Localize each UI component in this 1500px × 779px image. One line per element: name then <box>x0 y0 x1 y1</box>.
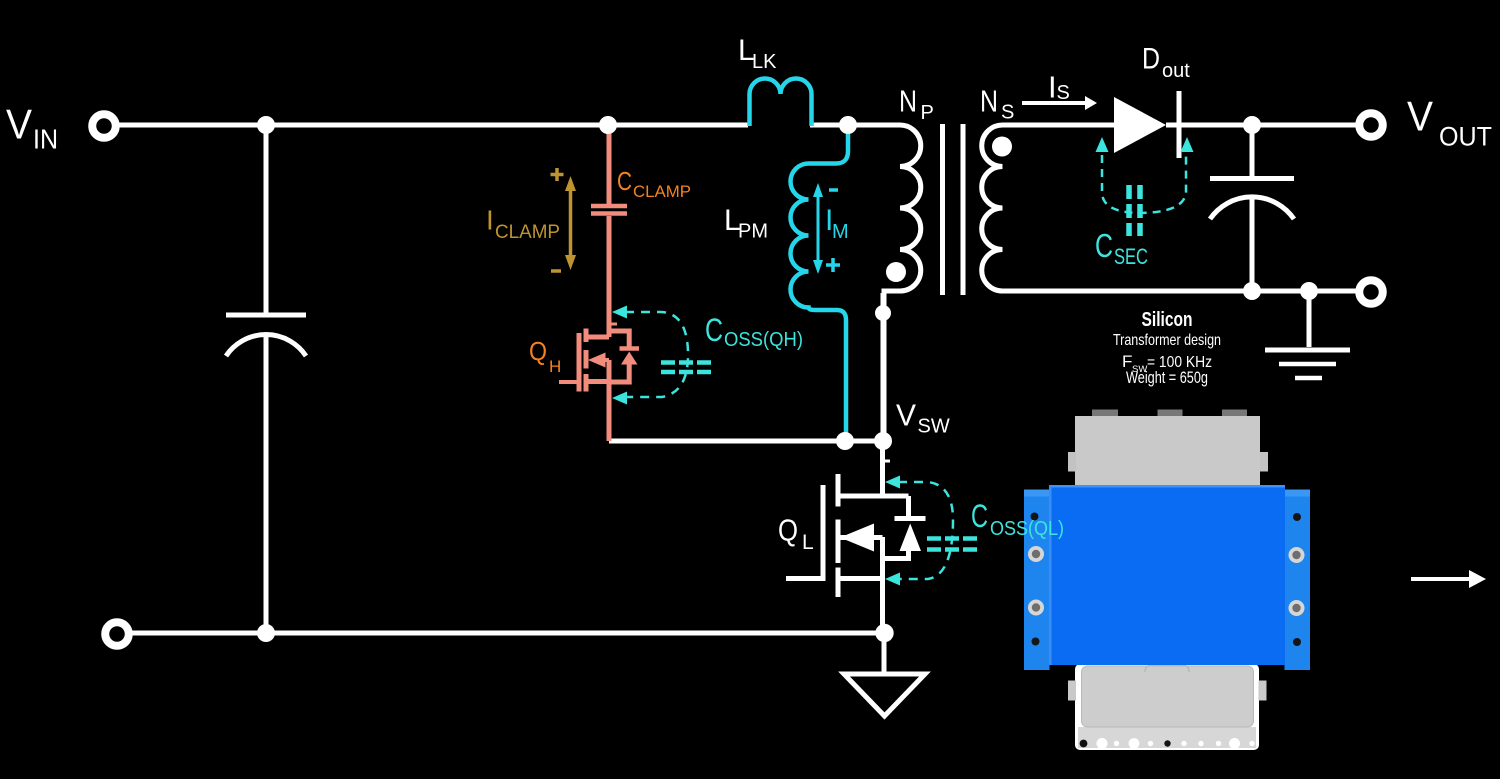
Im minus sign <box>829 188 838 192</box>
svg-text:CLAMP: CLAMP <box>495 222 560 243</box>
Coss(QL) arrow bottom <box>885 573 900 586</box>
svg-text:H: H <box>549 357 561 376</box>
svg-text:N: N <box>899 84 917 119</box>
inductor Lpm <box>791 125 849 441</box>
node junction Llk-Lpm <box>839 116 857 134</box>
svg-text:OUT: OUT <box>1439 122 1492 152</box>
label Cclamp <box>617 166 691 201</box>
svg-text:out: out <box>1162 60 1190 82</box>
svg-text:I: I <box>486 205 494 236</box>
transistor Q_H source stub <box>586 379 610 384</box>
transistor Q_L gate bar <box>821 485 826 581</box>
node junction right ground <box>1300 282 1318 300</box>
SECTION: white wires <box>112 125 1356 674</box>
label Im <box>825 204 849 243</box>
svg-text:M: M <box>832 221 849 243</box>
winding Ns secondary <box>982 125 1003 291</box>
ground right line2 <box>1279 362 1336 367</box>
capacitor Csec bar1 <box>1126 185 1132 236</box>
node junction bottom left <box>257 624 275 642</box>
Iclamp plus sign <box>551 168 564 181</box>
transistor Q_H body-source link <box>607 360 612 382</box>
svg-text:D: D <box>1142 43 1160 76</box>
Coss(QH) dashed loop <box>625 312 688 397</box>
transistor Q_H gate lead <box>559 380 579 384</box>
svg-text:Q: Q <box>529 336 547 366</box>
node junction Cclamp top <box>599 116 617 134</box>
svg-text:SEC: SEC <box>1114 244 1148 269</box>
transistor Q_H body diode branch <box>609 331 629 382</box>
Im plus sign <box>826 258 840 272</box>
svg-text:N: N <box>980 84 998 119</box>
terminal bottom left <box>105 622 129 646</box>
ground triangle <box>844 674 925 716</box>
svg-text:SW: SW <box>918 416 950 438</box>
capacitor Cin plate <box>226 313 306 318</box>
node junction Vin-Cin <box>257 116 275 134</box>
svg-text:V: V <box>896 398 916 433</box>
SECTION: junction dots and terminals <box>257 116 1318 642</box>
transistor Q_L channel segments <box>836 474 841 597</box>
transistor Q_H gate bar <box>577 333 582 392</box>
wire secondary bottom <box>1002 289 1356 294</box>
photo bracket holes right <box>1293 513 1301 521</box>
Csec dashed loop <box>1102 155 1186 213</box>
wire Cclamp to Qh drain <box>607 216 612 337</box>
wire Ql source down <box>880 537 885 631</box>
ground right line1 <box>1265 348 1350 353</box>
svg-text:C: C <box>971 498 988 534</box>
transistor Q_L body diode triangle <box>900 524 922 552</box>
photo left bracket <box>1024 490 1050 671</box>
svg-text:OSS(QL): OSS(QL) <box>990 518 1064 540</box>
capacitor Coss(QL) dashes <box>927 539 977 550</box>
svg-text:P: P <box>921 102 934 124</box>
wire Ql drain <box>880 443 885 496</box>
wire right ground stem <box>1307 291 1312 347</box>
SECTION: salmon clamp branch <box>559 128 639 441</box>
label Qh <box>529 336 561 376</box>
wire diode to Vout <box>1166 123 1356 128</box>
svg-text:I: I <box>1048 70 1057 105</box>
svg-text:F: F <box>1122 352 1132 371</box>
terminal bottom right <box>1359 280 1383 304</box>
polarity dot primary <box>886 262 906 282</box>
transformer core line 2 <box>961 124 966 295</box>
svg-text:IN: IN <box>33 124 58 155</box>
Csec arrow left <box>1096 137 1109 152</box>
wire input cap upper <box>264 125 269 313</box>
transistor Q_H channel segments <box>584 329 589 392</box>
winding Np primary <box>884 125 921 441</box>
node junction Cout bottom <box>1243 282 1261 300</box>
photo body <box>1049 485 1285 665</box>
svg-text:LK: LK <box>752 51 777 73</box>
label Iclamp <box>486 205 560 244</box>
svg-text:= 100 KHz: = 100 KHz <box>1147 354 1212 371</box>
node Vsw <box>874 432 892 450</box>
wire output cap upper <box>1250 125 1255 178</box>
svg-text:C: C <box>617 166 632 196</box>
svg-text:C: C <box>1095 227 1113 264</box>
node junction Ql source <box>875 624 893 642</box>
photo right bracket <box>1285 490 1311 671</box>
arrow Iclamp double-headed <box>565 176 576 270</box>
Csec arrow right <box>1181 137 1194 152</box>
transistor Q_H drain stub <box>586 335 609 340</box>
capacitor Cout plate <box>1210 176 1294 181</box>
Coss(QH) arrow bottom <box>612 392 627 405</box>
Coss(QL) arrow top <box>885 476 900 489</box>
svg-text:OSS(QH): OSS(QH) <box>724 329 803 351</box>
photo bracket holes left <box>1031 513 1039 521</box>
transistor Q_L drain stub <box>838 494 909 499</box>
transistor Q_H body diode cathode bar <box>620 346 640 351</box>
svg-text:PM: PM <box>738 221 768 243</box>
transformer core line 1 <box>940 124 945 295</box>
capacitor Cout curved plate <box>1210 197 1294 219</box>
label Csec <box>1095 227 1148 269</box>
wire bottom main <box>126 631 884 636</box>
wire output cap lower <box>1250 198 1255 291</box>
transistor Q_H drain tick <box>609 323 617 326</box>
node junction primary bottom <box>875 305 891 321</box>
svg-text:V: V <box>6 101 32 148</box>
wire Cclamp upper <box>607 128 612 204</box>
Ql drain tick <box>883 460 891 463</box>
capacitor Cclamp plate1 <box>591 204 627 209</box>
node junction Lpm-Vsw <box>836 432 854 450</box>
svg-text:S: S <box>1001 102 1014 124</box>
svg-text:Silicon: Silicon <box>1142 308 1193 331</box>
capacitor Cclamp plate2 <box>591 211 627 216</box>
transistor Q_H body diode triangle <box>621 352 638 365</box>
label Coss(QL) <box>971 498 1064 540</box>
svg-text:Transformer design: Transformer design <box>1113 332 1221 349</box>
svg-text:CLAMP: CLAMP <box>633 182 691 201</box>
Iclamp minus sign <box>551 269 561 273</box>
photo bottom block <box>1075 664 1259 750</box>
label Coss(QH) <box>705 312 803 351</box>
transistor Q_L gate lead <box>786 576 823 581</box>
arrow Im double-headed <box>813 183 823 274</box>
wire Q_H source down <box>607 382 612 441</box>
arrow Is <box>1022 96 1097 110</box>
transistor Q_L source stub <box>838 576 885 581</box>
wire top main <box>112 123 748 128</box>
wire ground stem <box>882 633 887 674</box>
wire top between Llk and primary <box>810 123 901 128</box>
svg-text:V: V <box>1407 93 1433 140</box>
wire Qh source to Vsw <box>609 439 883 444</box>
transistor Q_H arrow lead <box>600 358 609 362</box>
diode Dout triangle <box>1114 97 1166 153</box>
capacitor Cin curved plate <box>226 335 306 356</box>
wire secondary top to diode <box>1002 123 1114 128</box>
transistor Q_L arrow lead <box>840 538 883 579</box>
capacitor Csec bar2 <box>1137 185 1143 236</box>
capacitor Coss(QH) dashes <box>661 363 711 373</box>
photo top block <box>1075 416 1260 486</box>
terminal Vout <box>1359 113 1383 137</box>
transistor Q_H arrow head <box>588 353 606 368</box>
node junction diode out <box>1243 116 1261 134</box>
diode Dout cathode bar <box>1177 91 1182 158</box>
photo top tabs <box>1092 410 1118 418</box>
wire input cap lower <box>264 334 269 633</box>
terminal Vin <box>92 114 116 138</box>
ground right line3 <box>1295 376 1322 381</box>
transistor Q_L body diode branch <box>883 496 909 559</box>
svg-text:C: C <box>705 312 723 348</box>
svg-text:L: L <box>802 531 814 554</box>
transistor Q_L body diode cathode bar <box>895 516 926 521</box>
label Silicon block <box>1113 308 1221 387</box>
SECTION: text labels <box>6 34 1492 554</box>
SECTION: transformer photo <box>1024 410 1310 751</box>
transistor Q_L arrow head <box>840 524 874 552</box>
Coss(QH) arrow top <box>612 306 627 319</box>
photo base dots <box>1080 738 1255 749</box>
arrow big right <box>1411 570 1486 588</box>
svg-text:S: S <box>1057 82 1070 104</box>
polarity dot secondary <box>992 137 1012 157</box>
inductor Llk <box>750 79 812 127</box>
svg-text:Q: Q <box>778 513 798 548</box>
SECTION: Ql mosfet white <box>786 474 926 597</box>
Coss(QL) dashed loop <box>898 482 953 579</box>
svg-text:SW: SW <box>1132 364 1147 375</box>
wire primary bottom down to Vsw <box>881 293 886 441</box>
